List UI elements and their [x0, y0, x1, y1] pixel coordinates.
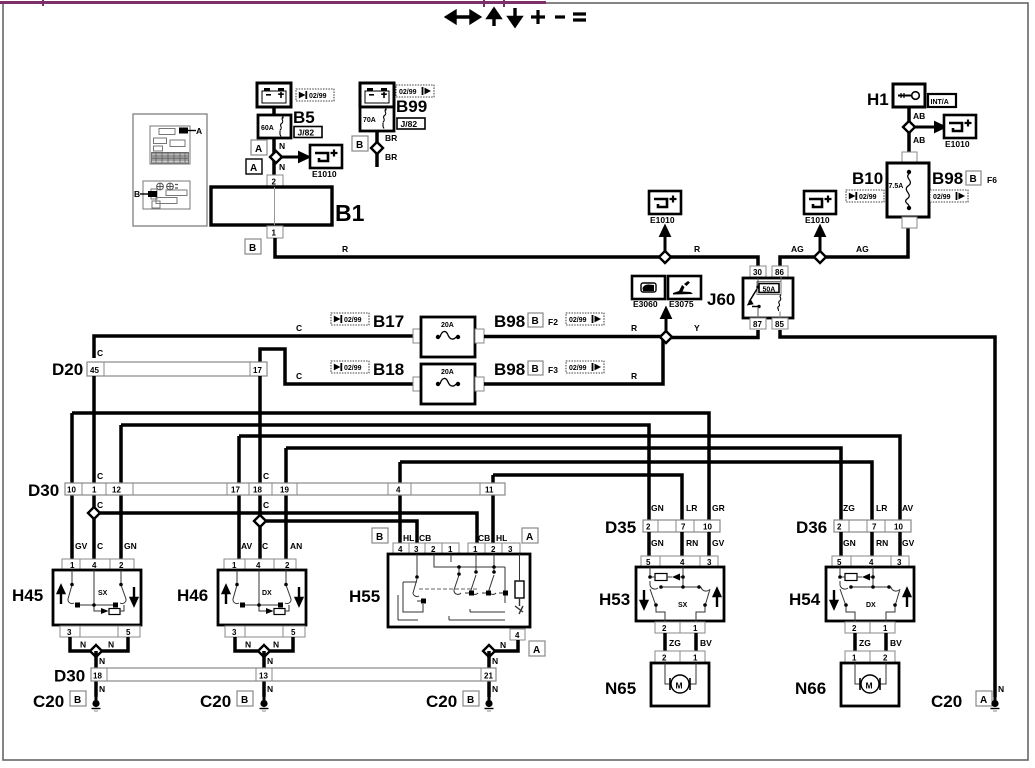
svg-text:N: N	[273, 640, 279, 650]
unit H1 key switch	[893, 84, 925, 107]
svg-text:N: N	[108, 640, 114, 650]
node diamond D30.1	[88, 507, 100, 519]
svg-text:C: C	[97, 541, 103, 551]
svg-text:AG: AG	[791, 244, 804, 254]
wire C D30.1 branch to H55.1r	[94, 513, 477, 556]
arrow up to E3075	[662, 309, 670, 338]
connector letter B box (H55 left)	[372, 528, 388, 543]
legend down arrow	[510, 8, 521, 26]
svg-text:R: R	[342, 244, 348, 254]
relay J60 coil	[778, 295, 781, 311]
wire node to ground C20 B1	[94, 651, 98, 697]
ref label B98 F6	[930, 190, 968, 202]
svg-text:F3: F3	[548, 365, 558, 375]
wire H55 pin4 to node	[489, 640, 518, 651]
connector letter B box (B99)	[352, 136, 368, 151]
left connector-detail panel	[133, 114, 207, 226]
motor N66	[841, 663, 899, 706]
svg-text:F6: F6	[987, 175, 997, 185]
node A diamond	[270, 151, 282, 163]
svg-text:B18: B18	[373, 360, 404, 379]
relay J60 50A fuse label	[757, 282, 781, 295]
svg-text:BR: BR	[385, 133, 397, 143]
svg-text:AN: AN	[290, 541, 302, 551]
connector D30 upper	[65, 483, 505, 495]
connector D36	[834, 520, 911, 532]
svg-text:B1: B1	[335, 200, 365, 226]
svg-text:N66: N66	[795, 679, 826, 698]
connector letter B box (B1)	[245, 239, 261, 254]
panel item A callout	[179, 128, 188, 134]
svg-text:H53: H53	[599, 590, 630, 609]
svg-text:17: 17	[253, 366, 262, 375]
purple top rule	[0, 1, 546, 4]
svg-text:C: C	[97, 348, 103, 358]
label INT/A	[928, 94, 956, 107]
H45 internal contacts	[68, 570, 126, 611]
fuse B10 top tab	[902, 152, 917, 163]
svg-text:A: A	[526, 532, 533, 543]
bus wire AV (D30.17 to D36.10)	[239, 436, 900, 520]
svg-text:B: B	[134, 189, 140, 199]
node diamond H45	[90, 645, 102, 657]
svg-text:R: R	[694, 244, 700, 254]
svg-text:30: 30	[753, 268, 762, 277]
node diamond D30.18	[254, 515, 266, 527]
node diamond on AG wire	[814, 251, 826, 263]
svg-text:N: N	[492, 656, 498, 666]
svg-text:13: 13	[259, 672, 268, 681]
H53 up arrow	[714, 589, 720, 607]
svg-text:B17: B17	[373, 312, 404, 331]
svg-text:DX: DX	[866, 602, 876, 609]
svg-text:J/82: J/82	[298, 128, 315, 138]
svg-text:12: 12	[112, 486, 121, 495]
svg-text:87: 87	[753, 320, 762, 329]
wire C to fuse B18 via D20 pin17 jog	[260, 349, 413, 384]
svg-text:ZG: ZG	[859, 638, 871, 648]
ground E1010 (mid)	[649, 191, 681, 214]
bus wire LR2 (D30.11 to D35.7)	[493, 475, 682, 520]
B1 pin 1	[267, 226, 283, 238]
ref label B98 F2	[566, 313, 604, 325]
svg-text:B98: B98	[494, 312, 525, 331]
svg-text:B: B	[532, 364, 539, 375]
fuse B99 70A	[360, 107, 394, 131]
svg-text:A: A	[250, 163, 257, 174]
svg-text:E1010: E1010	[312, 169, 337, 179]
vertical wire D20 pin45 to D30 pin1	[92, 376, 96, 483]
svg-text:86: 86	[775, 268, 784, 277]
svg-text:B: B	[241, 695, 248, 706]
svg-text:CB: CB	[419, 533, 431, 543]
J/82 label B99	[397, 118, 425, 129]
switch H45	[53, 570, 141, 625]
fuse B18 20A	[421, 364, 475, 404]
svg-text:C: C	[263, 471, 269, 481]
unit E3060 icon box	[632, 276, 665, 299]
svg-text:7.5A: 7.5A	[889, 183, 904, 190]
svg-text:RN: RN	[686, 538, 698, 548]
connector letter B box (F3)	[528, 361, 543, 375]
vertical D30.12 to H45.2	[119, 425, 123, 559]
arrow right to E1010 top-right	[909, 123, 944, 131]
H53 down arrow	[641, 590, 647, 608]
ref label B5	[296, 89, 334, 101]
connector letter A box (H55 bottom)	[529, 641, 545, 656]
svg-text:C: C	[296, 323, 302, 333]
svg-text:N: N	[500, 640, 506, 650]
svg-text:H55: H55	[349, 587, 380, 606]
battery B99 icon	[360, 83, 394, 107]
H54 down arrow	[831, 590, 837, 608]
svg-text:1: 1	[883, 624, 888, 633]
relay J60 pin85	[772, 318, 788, 329]
connector pins H54 bottom	[845, 622, 895, 633]
svg-text:C20: C20	[200, 692, 231, 711]
svg-text:INT/A: INT/A	[931, 99, 949, 106]
wire B99 down stub	[375, 131, 379, 167]
svg-text:AV: AV	[902, 503, 914, 513]
connector pins H53 top	[641, 556, 718, 567]
wire node to ground C20 B2	[262, 651, 266, 697]
wire H1 down to B10	[907, 107, 911, 152]
svg-text:DX: DX	[262, 590, 272, 597]
vertical D30.4 to H55.4	[398, 462, 402, 556]
svg-text:N: N	[267, 656, 273, 666]
ground E1010 (top left)	[310, 145, 342, 168]
wire C to fuse B17	[94, 336, 413, 358]
svg-text:N: N	[267, 684, 273, 694]
wire C D30.18 branch to H55.3	[260, 521, 417, 556]
node diamond H46	[258, 645, 270, 657]
svg-text:18: 18	[253, 486, 262, 495]
svg-text:2: 2	[837, 523, 842, 532]
svg-text:RN: RN	[876, 538, 888, 548]
svg-text:2: 2	[883, 654, 888, 663]
svg-text:AG: AG	[856, 244, 869, 254]
svg-text:2: 2	[662, 624, 667, 633]
motor N65	[651, 663, 709, 706]
svg-text:10: 10	[894, 523, 903, 532]
svg-text:LR: LR	[876, 503, 887, 513]
svg-text:HL: HL	[496, 533, 507, 543]
svg-text:D36: D36	[796, 518, 827, 537]
relay J60 pin86	[772, 266, 788, 277]
fuse B18 left tab	[413, 377, 422, 391]
svg-text:B98: B98	[494, 360, 525, 379]
svg-text:GN: GN	[124, 541, 137, 551]
H53 internal resistor and diode	[655, 574, 667, 581]
wire R fuse B18 out up to node	[484, 338, 663, 384]
svg-text:B5: B5	[293, 108, 315, 127]
svg-text:70A: 70A	[363, 117, 376, 124]
arrow up to E1010 right-mid	[816, 227, 824, 257]
wires H54 to N66	[855, 633, 886, 651]
svg-text:GN: GN	[843, 538, 856, 548]
svg-text:HL: HL	[403, 533, 414, 543]
svg-text:B: B	[970, 174, 977, 185]
unit E3075 icon box	[668, 276, 701, 299]
connector pins H45 top	[62, 559, 134, 570]
J/82 label B5	[294, 127, 322, 138]
wire battery to fuse B5	[272, 107, 276, 115]
switch H53	[636, 567, 724, 621]
fuse B10 7.5A	[887, 163, 929, 217]
switch unit H55	[388, 554, 530, 627]
svg-text:BV: BV	[700, 638, 712, 648]
svg-text:N: N	[80, 640, 86, 650]
node diamond H55	[483, 645, 495, 657]
connector pins H53 bottom	[655, 622, 705, 633]
bus wire GR (D30.10 to D35.10)	[72, 413, 709, 520]
vertical D30.18 to H46.4	[258, 483, 262, 559]
svg-text:E3075: E3075	[669, 299, 694, 309]
svg-text:B: B	[249, 243, 256, 254]
relay J60 pin30	[750, 266, 766, 277]
svg-text:B: B	[74, 695, 81, 706]
svg-text:1: 1	[693, 624, 698, 633]
ground E1010 (top right)	[944, 115, 976, 138]
svg-text:60A: 60A	[261, 125, 274, 132]
svg-text:R: R	[631, 371, 637, 381]
connector pins H55 right group	[468, 543, 520, 554]
vertical wire D20 pin17 to D30 pin18	[258, 376, 262, 483]
wires H46 pins to node	[235, 637, 293, 651]
svg-text:1: 1	[272, 229, 277, 238]
wire fuse B5 to node	[272, 138, 276, 175]
svg-text:10: 10	[67, 486, 76, 495]
svg-text:D30: D30	[28, 481, 59, 500]
vertical D30.1 to H45.4	[92, 483, 96, 559]
bus wire GN (D30.12 to D35.2)	[121, 425, 649, 520]
svg-text:GV: GV	[75, 541, 88, 551]
ref label B17	[331, 313, 369, 325]
svg-text:N: N	[279, 141, 285, 151]
connector letter A box (H55 right)	[522, 528, 538, 543]
svg-text:B: B	[467, 695, 474, 706]
vertical D30.17 to H46.1	[237, 436, 241, 559]
svg-text:AB: AB	[913, 135, 925, 145]
fuse B18 right tab	[475, 377, 484, 391]
svg-text:J60: J60	[707, 290, 735, 309]
svg-text:4: 4	[396, 486, 401, 495]
svg-text:D20: D20	[52, 360, 83, 379]
connector letter B box (F2)	[528, 313, 543, 327]
svg-text:18: 18	[93, 672, 102, 681]
legend up arrow	[489, 10, 500, 27]
connector pins H46 bottom	[225, 626, 305, 637]
legend minus	[555, 15, 565, 18]
svg-text:ZG: ZG	[843, 503, 855, 513]
svg-text:SX: SX	[98, 590, 108, 597]
H45 up arrow	[58, 586, 64, 604]
svg-text:C: C	[97, 471, 103, 481]
svg-text:H46: H46	[177, 586, 208, 605]
svg-text:H1: H1	[867, 90, 889, 109]
ground E1010 (right-mid)	[804, 191, 836, 214]
svg-text:20A: 20A	[441, 369, 454, 376]
svg-text:AB: AB	[913, 111, 925, 121]
svg-text:A: A	[980, 695, 987, 706]
svg-text:1: 1	[693, 654, 698, 663]
svg-text:N: N	[99, 656, 105, 666]
svg-text:N: N	[279, 162, 285, 172]
wires D36 to H54	[841, 532, 900, 556]
B1 pin 2	[267, 175, 283, 187]
svg-text:BR: BR	[385, 152, 397, 162]
svg-text:H45: H45	[12, 586, 43, 605]
svg-text:E1010: E1010	[945, 139, 970, 149]
H54 up arrow	[904, 589, 910, 607]
connector pins H54 top	[832, 556, 909, 567]
vertical D30.11 to H55.2r	[491, 475, 495, 556]
connector letter A box 2	[246, 159, 262, 174]
fuse B10 bottom tab	[902, 217, 917, 228]
svg-text:A: A	[255, 144, 262, 155]
svg-text:A: A	[196, 126, 202, 136]
svg-text:C: C	[296, 371, 302, 381]
connector pins H46 top	[224, 559, 296, 570]
vertical D30.19 to H46.2	[284, 448, 288, 559]
svg-text:GV: GV	[712, 538, 725, 548]
svg-text:N: N	[99, 684, 105, 694]
svg-text:B: B	[376, 532, 383, 543]
arrow from node A to E1010	[276, 153, 308, 161]
H46 lamp	[266, 608, 274, 614]
wire node to ground C20 B3	[487, 651, 491, 697]
svg-text:M: M	[676, 681, 683, 691]
svg-text:C20: C20	[931, 692, 962, 711]
wires D35 to H53	[649, 532, 709, 556]
svg-text:2: 2	[852, 624, 857, 633]
svg-text:R: R	[631, 323, 637, 333]
svg-text:C20: C20	[426, 692, 457, 711]
panel circle glyphs	[157, 183, 178, 190]
svg-text:7: 7	[681, 523, 686, 532]
svg-text:3: 3	[232, 628, 237, 637]
svg-text:CB: CB	[478, 533, 490, 543]
H55 resistor	[515, 581, 524, 598]
svg-text:C20: C20	[33, 692, 64, 711]
H45 lamp	[101, 608, 109, 614]
bus wire ZG (D30.19 to D36.2)	[286, 448, 841, 520]
connector D35	[643, 520, 720, 532]
svg-text:N65: N65	[605, 679, 636, 698]
legend plus	[531, 10, 545, 24]
svg-text:C: C	[262, 541, 268, 551]
fuse B5 60A	[258, 115, 291, 138]
H55 internals	[398, 554, 507, 620]
svg-text:M: M	[866, 681, 873, 691]
wire R fuse B17 out to J60 pin87	[484, 330, 758, 338]
wires H45 pins to node	[70, 637, 128, 651]
H45 down arrow	[131, 587, 137, 605]
switch H54	[826, 567, 914, 621]
svg-text:E1010: E1010	[650, 215, 675, 225]
svg-text:85: 85	[775, 320, 784, 329]
svg-text:1: 1	[852, 654, 857, 663]
svg-text:GR: GR	[712, 503, 725, 513]
legend equals	[573, 14, 586, 20]
svg-text:5: 5	[291, 628, 296, 637]
fuse B17 left tab	[413, 329, 422, 343]
node diamond Y junction	[660, 331, 672, 343]
svg-text:B: B	[356, 140, 363, 151]
H46 up arrow	[223, 586, 229, 604]
connector D30 lower	[91, 668, 496, 681]
connector pins N66	[845, 651, 895, 663]
svg-text:2: 2	[272, 178, 277, 187]
ref label B99	[396, 85, 434, 97]
svg-text:21: 21	[484, 672, 493, 681]
connector pins H45 bottom	[60, 626, 140, 637]
svg-text:A: A	[533, 645, 540, 656]
relay J60 contact	[757, 278, 759, 285]
node diamond H1	[903, 121, 915, 133]
fuse B17 right tab	[475, 329, 484, 343]
svg-text:50A: 50A	[763, 287, 776, 294]
ref label B18	[331, 361, 369, 373]
svg-text:4: 4	[515, 631, 520, 640]
svg-text:2: 2	[646, 523, 651, 532]
svg-text:GN: GN	[651, 503, 664, 513]
connector letter B box (F6)	[966, 171, 981, 185]
wires H53 to N65	[665, 633, 696, 651]
H46 internal contacts	[233, 570, 291, 611]
svg-text:D30: D30	[54, 667, 85, 686]
svg-text:2: 2	[662, 654, 667, 663]
ref label B10	[846, 190, 884, 202]
wire R from B1 pin1 to J60 pin30	[275, 238, 758, 266]
svg-text:11: 11	[485, 486, 494, 495]
bus wire LR (D30.4 to D36.7)	[400, 462, 872, 520]
svg-text:J/82: J/82	[401, 119, 418, 129]
node diamond B99	[371, 142, 383, 154]
svg-text:E3060: E3060	[633, 299, 658, 309]
fuse B17 20A	[421, 317, 475, 357]
connector letter A box 1	[251, 140, 267, 155]
connector pins H55 left group	[393, 543, 459, 554]
svg-text:B99: B99	[396, 97, 427, 116]
panel item B callout	[148, 191, 157, 197]
connector D20	[87, 362, 267, 376]
svg-text:C: C	[263, 500, 269, 510]
svg-text:N: N	[492, 684, 498, 694]
svg-text:H54: H54	[789, 590, 821, 609]
node diamond on R wire	[659, 251, 671, 263]
unit B1	[211, 187, 332, 225]
svg-text:B98: B98	[932, 169, 963, 188]
svg-text:3: 3	[67, 628, 72, 637]
svg-text:7: 7	[872, 523, 877, 532]
svg-text:5: 5	[126, 628, 131, 637]
switch H46	[218, 570, 306, 625]
svg-text:AV: AV	[241, 541, 253, 551]
svg-text:ZG: ZG	[669, 638, 681, 648]
svg-text:N: N	[998, 684, 1004, 694]
connector pin H55 bottom 4	[510, 629, 525, 640]
svg-text:10: 10	[703, 523, 712, 532]
battery B5 icon	[257, 83, 291, 107]
svg-text:E1010: E1010	[805, 215, 830, 225]
H54 internal resistor and diode	[845, 574, 857, 581]
wire from J60 pin85 to C20 ground (right edge)	[780, 330, 995, 697]
svg-text:LR: LR	[686, 503, 697, 513]
svg-text:B10: B10	[852, 169, 883, 188]
svg-text:N: N	[245, 640, 251, 650]
svg-text:1: 1	[92, 486, 97, 495]
